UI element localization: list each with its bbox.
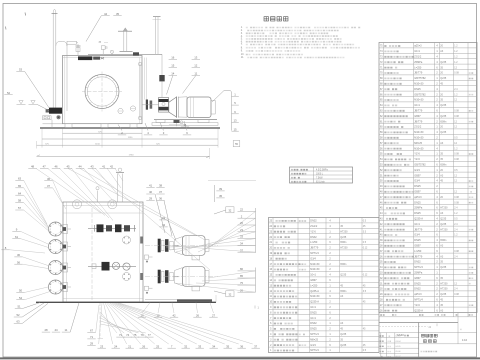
svg-text:NPT1/4: NPT1/4 bbox=[414, 266, 423, 269]
mid bottom callout row 73-77 bbox=[101, 312, 154, 337]
left callout pair 50 54 bbox=[16, 287, 50, 300]
svg-text:Q235: Q235 bbox=[440, 266, 447, 269]
bottom callout row 28 44 11 bbox=[42, 303, 79, 332]
front view ground line bbox=[40, 127, 220, 129]
svg-text:26: 26 bbox=[240, 288, 243, 292]
left callout 8 bbox=[1, 246, 45, 253]
top callout 44 35 with leader bbox=[86, 12, 122, 42]
svg-text:38: 38 bbox=[159, 184, 163, 188]
svg-text:85: 85 bbox=[240, 274, 243, 278]
svg-text:35: 35 bbox=[116, 12, 120, 16]
svg-text:L=250: L=250 bbox=[414, 250, 422, 253]
lower valve manifold in plan bbox=[88, 262, 136, 271]
svg-text:G3/4: G3/4 bbox=[414, 180, 420, 183]
svg-text:DN32: DN32 bbox=[310, 220, 317, 223]
svg-text:10×1: 10×1 bbox=[414, 104, 420, 107]
plan view top flange circles bbox=[73, 200, 117, 209]
svg-text:Q235-A: Q235-A bbox=[414, 218, 423, 221]
svg-text:JB/T79: JB/T79 bbox=[310, 247, 319, 250]
svg-text:64: 64 bbox=[18, 191, 22, 195]
tee fitting on suction pipe bbox=[67, 41, 78, 44]
svg-text:M10×30: M10×30 bbox=[414, 99, 424, 102]
svg-text:45: 45 bbox=[66, 164, 70, 168]
svg-text:25MPa: 25MPa bbox=[414, 61, 423, 64]
parameter legend box bbox=[290, 167, 353, 183]
svg-text:26: 26 bbox=[240, 221, 243, 225]
svg-text:39: 39 bbox=[219, 187, 223, 191]
left callout pair 9 61 bbox=[12, 228, 48, 248]
svg-text:63: 63 bbox=[18, 177, 22, 181]
svg-text:13: 13 bbox=[194, 56, 198, 60]
title block outline bbox=[379, 323, 458, 329]
svg-text:40: 40 bbox=[149, 190, 153, 194]
svg-text:52: 52 bbox=[16, 313, 20, 317]
svg-text:58: 58 bbox=[18, 199, 22, 203]
svg-text:29: 29 bbox=[149, 197, 153, 201]
suction pipe gooseneck into tank bbox=[56, 42, 67, 112]
svg-text:Q235: Q235 bbox=[340, 333, 347, 336]
svg-text:42: 42 bbox=[172, 313, 176, 317]
svg-text:77: 77 bbox=[148, 333, 152, 337]
svg-text:21: 21 bbox=[128, 344, 132, 348]
svg-text:33: 33 bbox=[198, 344, 202, 348]
return manifold pipe on tank top bbox=[88, 54, 162, 56]
manhole cover flange circle bbox=[85, 75, 119, 109]
svg-text:03.04: 03.04 bbox=[396, 341, 402, 343]
svg-text:86: 86 bbox=[240, 267, 243, 271]
svg-text:35: 35 bbox=[226, 344, 230, 348]
title block drawing name text bbox=[397, 313, 469, 353]
oil tank body bbox=[63, 56, 143, 124]
svg-text:15: 15 bbox=[171, 64, 175, 68]
svg-text:GB97: GB97 bbox=[414, 191, 421, 194]
svg-text:28: 28 bbox=[44, 328, 48, 332]
long bottom callout row bbox=[98, 303, 260, 348]
svg-text:0.08: 0.08 bbox=[454, 111, 459, 113]
svg-text:YZ-6: YZ-6 bbox=[414, 304, 420, 307]
front view chain dimension row 3 bbox=[37, 141, 219, 149]
oil level gauge bbox=[138, 62, 141, 119]
svg-text:DN25: DN25 bbox=[310, 311, 317, 314]
technical requirements body text bbox=[241, 26, 360, 59]
svg-text:NPT1/4: NPT1/4 bbox=[310, 349, 319, 352]
svg-text:1:10: 1:10 bbox=[462, 338, 468, 342]
svg-text:36: 36 bbox=[47, 177, 51, 181]
svg-text:GB97: GB97 bbox=[414, 277, 421, 280]
front view chain dimension row 1 bbox=[42, 129, 218, 148]
under-tank callouts 2 4 3 6 11 bbox=[118, 121, 191, 135]
svg-text:10×1: 10×1 bbox=[310, 317, 316, 320]
parts list header band bbox=[379, 314, 477, 317]
svg-text:26: 26 bbox=[142, 344, 146, 348]
left callout 53 with leader bbox=[16, 68, 49, 108]
boxed callout 32 lower bbox=[214, 291, 234, 297]
svg-text:φ25×3: φ25×3 bbox=[414, 45, 422, 48]
svg-text:34: 34 bbox=[212, 344, 216, 348]
faint leader line to right bbox=[208, 179, 256, 181]
svg-text:JB/T79: JB/T79 bbox=[414, 255, 423, 258]
svg-text:M10×30: M10×30 bbox=[310, 295, 320, 298]
svg-text:GB97: GB97 bbox=[414, 174, 421, 177]
svg-text:G3/4: G3/4 bbox=[310, 344, 316, 347]
svg-text:M8×25: M8×25 bbox=[414, 142, 422, 145]
svg-text:45: 45 bbox=[219, 194, 223, 198]
svg-text:13: 13 bbox=[233, 119, 237, 123]
svg-text:JB/T79: JB/T79 bbox=[414, 72, 423, 75]
svg-text:37: 37 bbox=[254, 344, 258, 348]
svg-text:36: 36 bbox=[240, 344, 244, 348]
svg-text:15: 15 bbox=[233, 127, 237, 131]
svg-text:10×1: 10×1 bbox=[414, 223, 420, 226]
svg-text:M10×30: M10×30 bbox=[414, 147, 424, 150]
svg-text:L=250: L=250 bbox=[310, 284, 318, 287]
svg-text:65Mn: 65Mn bbox=[340, 290, 347, 293]
svg-text:Q235: Q235 bbox=[440, 77, 447, 80]
svg-text:0.08: 0.08 bbox=[454, 197, 459, 199]
svg-text:65Mn: 65Mn bbox=[440, 120, 447, 123]
svg-text:63 L/min: 63 L/min bbox=[316, 181, 326, 183]
svg-text:29: 29 bbox=[90, 342, 94, 346]
svg-text:HT200: HT200 bbox=[440, 207, 448, 210]
svg-text:47: 47 bbox=[43, 164, 47, 168]
svg-text:NPT1/4: NPT1/4 bbox=[414, 299, 423, 302]
plan view filler pipe stub bbox=[116, 168, 124, 202]
svg-text:M10×30: M10×30 bbox=[414, 83, 424, 86]
plan view small stub with ball bbox=[96, 187, 99, 202]
oil level symbols with leader bbox=[17, 101, 50, 111]
svg-text:JB/T79: JB/T79 bbox=[414, 110, 423, 113]
svg-text:36: 36 bbox=[159, 197, 163, 201]
boxed callout 32 upper bbox=[214, 207, 234, 214]
svg-text:JB/T79: JB/T79 bbox=[414, 228, 423, 231]
right callout bus lower with numbers bbox=[174, 267, 256, 292]
front view dimension row 2 bbox=[42, 137, 218, 139]
bell housing coupling bbox=[169, 97, 187, 118]
svg-text:44: 44 bbox=[78, 164, 82, 168]
svg-text:54: 54 bbox=[19, 296, 23, 300]
svg-text:0.08: 0.08 bbox=[454, 73, 459, 75]
svg-text:L=250: L=250 bbox=[414, 66, 422, 69]
left callout pair 30 56 bbox=[14, 253, 48, 269]
svg-text:50: 50 bbox=[19, 289, 23, 293]
tall return pipe above tank bbox=[153, 17, 162, 55]
svg-text:65: 65 bbox=[18, 184, 22, 188]
boxed callout 55 right of dimensions bbox=[233, 141, 240, 147]
svg-text:HT200: HT200 bbox=[440, 282, 448, 285]
svg-text:ZG1/2: ZG1/2 bbox=[414, 126, 422, 129]
svg-text:9.: 9. bbox=[241, 50, 243, 53]
plan view centerline bbox=[91, 208, 93, 300]
svg-text:16: 16 bbox=[171, 56, 175, 60]
parts list right block text bbox=[380, 45, 473, 313]
svg-text:10×1: 10×1 bbox=[310, 306, 316, 309]
svg-text:1750: 1750 bbox=[129, 155, 135, 157]
down pipe inside tank right wall bbox=[145, 58, 147, 100]
tiny mark top left bbox=[24, 13, 27, 16]
svg-text:41: 41 bbox=[102, 164, 106, 168]
svg-text:23: 23 bbox=[240, 228, 243, 232]
svg-text:YZ-6: YZ-6 bbox=[414, 158, 420, 161]
svg-text:61: 61 bbox=[15, 235, 19, 239]
svg-text:44: 44 bbox=[104, 12, 108, 16]
svg-text:Q235-A: Q235-A bbox=[310, 290, 319, 293]
tiny callout left of parts list bbox=[255, 306, 260, 310]
svg-text:4.5/2.5MPa: 4.5/2.5MPa bbox=[316, 169, 328, 171]
valve cluster on tank front top bbox=[78, 56, 104, 60]
right leader bus with callouts 1 5 6 13 15 bbox=[212, 91, 239, 132]
svg-text:48: 48 bbox=[31, 164, 35, 168]
svg-text:M10×30: M10×30 bbox=[414, 131, 424, 134]
svg-text:HT200: HT200 bbox=[440, 228, 448, 231]
parts list right block grid bbox=[379, 43, 477, 313]
pump and motor set lower in plan bbox=[145, 267, 218, 291]
svg-text:M10×30: M10×30 bbox=[310, 263, 320, 266]
svg-text:NPT1/4: NPT1/4 bbox=[310, 252, 319, 255]
title block signature grid bbox=[379, 313, 477, 359]
svg-text:G3/4: G3/4 bbox=[414, 169, 420, 172]
relief valve fitting with label 35 bbox=[99, 42, 109, 54]
svg-text:DN32: DN32 bbox=[310, 322, 317, 325]
long leader diagonals across plan view bbox=[68, 169, 210, 271]
svg-text:57: 57 bbox=[18, 206, 22, 210]
svg-text:YZ-6: YZ-6 bbox=[414, 153, 420, 156]
svg-text:DN25: DN25 bbox=[414, 282, 421, 285]
svg-text:10×1: 10×1 bbox=[414, 50, 420, 53]
svg-text:Q235: Q235 bbox=[340, 344, 347, 347]
plan view right extension dimension ticks bbox=[215, 295, 217, 302]
right callout bus upper with numbers bbox=[238, 208, 256, 253]
svg-text:56: 56 bbox=[17, 260, 21, 264]
svg-text:0.08: 0.08 bbox=[454, 159, 459, 161]
svg-text:44: 44 bbox=[54, 328, 58, 332]
auxiliary hand pump dark valve block bbox=[46, 108, 62, 114]
mid plan callouts 24 34 bbox=[159, 216, 176, 241]
dashed drop line below plan view bbox=[98, 303, 104, 339]
svg-text:65Mn: 65Mn bbox=[340, 241, 347, 244]
svg-text:ZG1/2: ZG1/2 bbox=[310, 225, 318, 228]
leader fan to right callout bus upper bbox=[160, 211, 256, 252]
svg-text:33: 33 bbox=[240, 235, 243, 239]
svg-text:DN25: DN25 bbox=[414, 201, 421, 204]
svg-text:NPT1/4: NPT1/4 bbox=[310, 333, 319, 336]
svg-text:Q235: Q235 bbox=[440, 223, 447, 226]
svg-text:27: 27 bbox=[212, 313, 216, 317]
manifold right end dark fitting bbox=[133, 52, 139, 55]
pressure gauge fitting bbox=[105, 48, 114, 56]
left callout pair 36 37 bbox=[44, 177, 66, 209]
callout stack 16 15 14 bbox=[167, 56, 178, 95]
tank drain bosses bbox=[118, 106, 136, 114]
svg-text:42: 42 bbox=[110, 164, 114, 168]
svg-text:76: 76 bbox=[141, 333, 145, 337]
svg-text:G3/4: G3/4 bbox=[414, 234, 420, 237]
svg-text:37: 37 bbox=[159, 190, 163, 194]
riser valve fitting on tank top left bbox=[76, 44, 81, 56]
svg-text:52: 52 bbox=[7, 91, 11, 95]
bottom callout row 18 38 42 26 27 bbox=[138, 303, 218, 318]
svg-text:Q235: Q235 bbox=[440, 131, 447, 134]
svg-text:32: 32 bbox=[184, 344, 188, 348]
svg-text:26: 26 bbox=[196, 313, 200, 317]
svg-text:34: 34 bbox=[240, 242, 243, 246]
svg-text:65Mn: 65Mn bbox=[340, 263, 347, 266]
pump and motor set upper in plan bbox=[145, 236, 218, 260]
svg-text:74: 74 bbox=[126, 333, 130, 337]
callout stack 13 12 11 bbox=[183, 56, 201, 94]
svg-text:0.08: 0.08 bbox=[454, 116, 459, 118]
svg-text:25: 25 bbox=[156, 344, 160, 348]
svg-text:71: 71 bbox=[90, 335, 94, 339]
svg-text:DN25: DN25 bbox=[414, 239, 421, 242]
plan view heavy base edge bbox=[36, 301, 216, 303]
pump P1 bbox=[159, 98, 169, 113]
svg-text:YZ-6: YZ-6 bbox=[310, 230, 316, 233]
svg-text:75: 75 bbox=[133, 333, 137, 337]
front view overall dimension 1750 bbox=[37, 148, 210, 159]
svg-text:GB/T5782: GB/T5782 bbox=[414, 164, 426, 167]
svg-text:M10×30: M10×30 bbox=[310, 268, 320, 271]
wall drain fitting lower bbox=[145, 286, 153, 294]
svg-text:HT200: HT200 bbox=[340, 247, 348, 250]
electric motor M1 bbox=[187, 97, 215, 118]
svg-text:11.: 11. bbox=[241, 56, 245, 59]
drain valve under bell housing bbox=[169, 120, 186, 126]
left bottom callout stack 67 71 29 bbox=[87, 305, 99, 346]
svg-text:GB/T5782: GB/T5782 bbox=[414, 77, 426, 80]
callout cluster above motors 41 38 40 37 29 36 bbox=[146, 184, 172, 237]
svg-text:06.07: 06.07 bbox=[396, 356, 402, 358]
svg-text:Q235-A: Q235-A bbox=[414, 309, 423, 312]
svg-text:37: 37 bbox=[47, 184, 51, 188]
svg-text:46: 46 bbox=[54, 164, 58, 168]
plan view tank outline bbox=[63, 202, 143, 302]
svg-text:34: 34 bbox=[162, 223, 166, 227]
svg-text:0.08: 0.08 bbox=[454, 154, 459, 156]
svg-text:0.12: 0.12 bbox=[363, 275, 368, 277]
svg-text:Q235: Q235 bbox=[340, 274, 347, 277]
svg-text:24: 24 bbox=[114, 344, 118, 348]
svg-text:HT200: HT200 bbox=[440, 288, 448, 291]
svg-text:14: 14 bbox=[171, 72, 175, 76]
svg-text:Q235: Q235 bbox=[440, 61, 447, 64]
parts list left block text bbox=[269, 220, 368, 353]
tank skid feet bbox=[65, 124, 137, 128]
svg-text:37: 37 bbox=[240, 248, 243, 252]
plan view hatched channel bar bbox=[145, 299, 212, 302]
svg-text:43: 43 bbox=[90, 164, 94, 168]
bottom left callouts 51 52 63 with leaders bbox=[14, 303, 48, 324]
svg-text:GB/T5782: GB/T5782 bbox=[414, 93, 426, 96]
small bus and callouts right of filler stub bbox=[215, 185, 225, 202]
svg-text:GB97: GB97 bbox=[414, 245, 421, 248]
svg-text:0.08: 0.08 bbox=[454, 251, 459, 253]
svg-text:DN32: DN32 bbox=[414, 288, 421, 291]
svg-text:ZG1/2: ZG1/2 bbox=[414, 56, 422, 59]
svg-text:Q235: Q235 bbox=[440, 115, 447, 118]
svg-text:JB/T79: JB/T79 bbox=[414, 120, 423, 123]
svg-text:0.08: 0.08 bbox=[454, 294, 459, 296]
svg-text:67: 67 bbox=[90, 329, 94, 333]
pressure riser pipe with valve bbox=[159, 54, 164, 97]
svg-text:25MPa: 25MPa bbox=[414, 272, 423, 275]
svg-text:M8×25: M8×25 bbox=[310, 338, 318, 341]
svg-text:Q235: Q235 bbox=[440, 218, 447, 221]
svg-text:0.12: 0.12 bbox=[363, 248, 368, 250]
left callout 52 bbox=[4, 91, 12, 95]
svg-text:63: 63 bbox=[16, 320, 20, 324]
svg-text:0.08: 0.08 bbox=[454, 202, 459, 204]
svg-text:φ25×3: φ25×3 bbox=[414, 293, 422, 296]
left callout stack 63 65 64 58 57 bbox=[15, 177, 51, 233]
svg-text:12: 12 bbox=[194, 64, 198, 68]
svg-text:1000 L: 1000 L bbox=[316, 173, 324, 175]
svg-text:05.06: 05.06 bbox=[396, 351, 402, 353]
svg-text:Q235: Q235 bbox=[440, 293, 447, 296]
svg-text:25MPa: 25MPa bbox=[414, 207, 423, 210]
svg-text:30: 30 bbox=[17, 253, 21, 257]
manhole centerlines bbox=[82, 72, 122, 112]
svg-text:65Mn: 65Mn bbox=[440, 239, 447, 242]
svg-text:24: 24 bbox=[162, 216, 166, 220]
air filters on tank left wall bbox=[49, 222, 72, 294]
svg-text:GB97: GB97 bbox=[414, 115, 421, 118]
svg-text:53: 53 bbox=[19, 68, 23, 72]
plan view top callout row 48 47 46 45 44 43 41 42 bbox=[28, 164, 123, 220]
svg-text:DN32: DN32 bbox=[310, 236, 317, 239]
air breather filter bbox=[118, 28, 133, 52]
svg-text:41: 41 bbox=[149, 184, 153, 188]
svg-text:M10×30: M10×30 bbox=[414, 137, 424, 140]
upper valve manifold in plan bbox=[88, 224, 136, 232]
svg-text:DN25: DN25 bbox=[310, 328, 317, 331]
svg-text:51: 51 bbox=[17, 304, 21, 308]
svg-text:YZ-63: YZ-63 bbox=[397, 333, 405, 337]
tank right wall suction flanges bbox=[142, 100, 159, 110]
svg-text:65Mn: 65Mn bbox=[440, 164, 447, 167]
svg-text:7.5kW: 7.5kW bbox=[316, 177, 323, 179]
svg-text:G3/4: G3/4 bbox=[310, 257, 316, 260]
svg-text:22: 22 bbox=[240, 208, 243, 212]
svg-text:11: 11 bbox=[194, 72, 197, 76]
technical requirements title bbox=[264, 17, 288, 21]
svg-text:GB97: GB97 bbox=[310, 279, 317, 282]
svg-text:DN32: DN32 bbox=[414, 261, 421, 264]
svg-text:10×1: 10×1 bbox=[310, 274, 316, 277]
pump suction flanges on right wall bbox=[123, 236, 144, 281]
svg-text:Q235-A: Q235-A bbox=[310, 301, 319, 304]
svg-text:DN25: DN25 bbox=[414, 88, 421, 91]
parts list left block grid bbox=[269, 218, 380, 353]
motor base frame bbox=[152, 120, 218, 126]
svg-text:DN25: DN25 bbox=[414, 185, 421, 188]
hand pump flange plate bbox=[43, 116, 63, 128]
tiny corner mark bbox=[5, 27, 8, 30]
svg-text:φ25×3: φ25×3 bbox=[414, 196, 422, 199]
left standpipe with flask cap bbox=[52, 10, 58, 108]
svg-text:HT200: HT200 bbox=[340, 230, 348, 233]
svg-text:Q235: Q235 bbox=[340, 236, 347, 239]
svg-text:23: 23 bbox=[100, 344, 104, 348]
svg-text:DN25: DN25 bbox=[414, 212, 421, 215]
svg-text:04.05: 04.05 bbox=[396, 346, 402, 348]
svg-text:Q235: Q235 bbox=[440, 104, 447, 107]
svg-text:11: 11 bbox=[65, 328, 68, 332]
wall drain fitting upper bbox=[145, 255, 153, 263]
svg-text:L=250: L=250 bbox=[310, 241, 318, 244]
